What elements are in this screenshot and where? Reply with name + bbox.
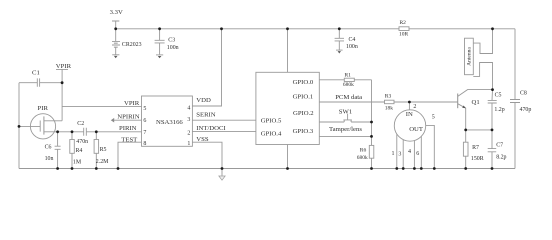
svg-text:IN: IN bbox=[406, 111, 413, 118]
wire pull vertical bbox=[371, 80, 373, 146]
svg-text:C6: C6 bbox=[45, 145, 52, 151]
svg-text:R3: R3 bbox=[385, 94, 392, 100]
wire SERIN bbox=[192, 119, 256, 121]
svg-text:R6: R6 bbox=[360, 148, 367, 154]
junction at (465.7,129.9) bbox=[464, 129, 467, 132]
svg-text:8: 8 bbox=[143, 141, 146, 147]
wire VSS to ground bbox=[192, 142, 222, 168]
junction at (96.3,168.5) bbox=[95, 167, 98, 170]
capacitor C5 bbox=[488, 90, 505, 130]
junction at (396.8,168.5) bbox=[395, 167, 398, 170]
svg-text:4: 4 bbox=[187, 106, 190, 112]
svg-text:R2: R2 bbox=[400, 20, 407, 26]
svg-text:GPIO.5: GPIO.5 bbox=[261, 118, 282, 125]
svg-text:18k: 18k bbox=[385, 105, 394, 111]
junction at (371.5,168.5) bbox=[370, 167, 373, 170]
junction at (222,168.5) bbox=[221, 167, 224, 170]
resistor R1 bbox=[319, 73, 371, 89]
junction at (57.6,131.8) bbox=[56, 130, 59, 133]
svg-text:PIRIN: PIRIN bbox=[119, 125, 137, 132]
svg-text:3: 3 bbox=[398, 151, 401, 157]
svg-text:C3: C3 bbox=[168, 38, 175, 44]
junction at (62.1,82.7) bbox=[61, 81, 64, 84]
svg-text:5: 5 bbox=[143, 106, 146, 112]
svg-text:PCM data: PCM data bbox=[335, 94, 362, 101]
wire TEST to ground bbox=[118, 142, 142, 168]
svg-text:C7: C7 bbox=[496, 143, 503, 149]
junction at (492,168.5) bbox=[491, 167, 494, 170]
module U3 PCM sounder (IN/OUT) bbox=[392, 102, 435, 169]
svg-text:GPIO.1: GPIO.1 bbox=[293, 94, 314, 101]
capacitor C2 bbox=[76, 121, 88, 145]
svg-text:10n: 10n bbox=[45, 156, 54, 162]
svg-text:SW1: SW1 bbox=[339, 108, 352, 115]
wire tamper bbox=[319, 135, 371, 137]
svg-text:C4: C4 bbox=[349, 37, 356, 43]
IC U2 MCU GPIO block bbox=[256, 72, 319, 144]
wire VDD to rail bbox=[192, 29, 221, 106]
svg-text:R4: R4 bbox=[76, 148, 83, 154]
svg-text:2: 2 bbox=[413, 104, 416, 110]
svg-text:TEST: TEST bbox=[121, 136, 137, 143]
svg-text:R7: R7 bbox=[472, 145, 479, 151]
svg-text:OUT: OUT bbox=[409, 126, 423, 133]
resistor R6 bbox=[357, 145, 374, 168]
svg-text:680k: 680k bbox=[357, 155, 368, 161]
junction at (72,131.8) bbox=[71, 130, 74, 133]
battery CR2023 bbox=[112, 29, 142, 55]
svg-text:GPIO.3: GPIO.3 bbox=[293, 128, 314, 135]
junction at (492.5,89.6) bbox=[491, 88, 494, 91]
ground (battery) bbox=[112, 54, 119, 56]
junction at (339.3,28.8) bbox=[338, 27, 341, 30]
svg-text:1: 1 bbox=[392, 151, 395, 157]
wire INT/DOCI bbox=[192, 131, 256, 133]
wire rail corner to C8 bbox=[514, 29, 516, 100]
svg-text:2.2M: 2.2M bbox=[96, 159, 109, 165]
svg-text:6: 6 bbox=[416, 151, 419, 157]
svg-text:NPIRIN: NPIRIN bbox=[117, 114, 139, 121]
wire PIR source / PIRIN bbox=[44, 131, 142, 133]
svg-text:C5: C5 bbox=[495, 92, 502, 98]
svg-text:Q1: Q1 bbox=[472, 99, 480, 106]
svg-text:1M: 1M bbox=[73, 160, 82, 166]
svg-text:C8: C8 bbox=[520, 91, 527, 97]
svg-text:8.2p: 8.2p bbox=[496, 154, 506, 160]
svg-text:SERIN: SERIN bbox=[196, 111, 215, 118]
wire emitter node bbox=[466, 129, 492, 131]
junction at (287.5,168.5) bbox=[286, 167, 289, 170]
ground (C4) bbox=[336, 49, 343, 51]
junction at (465.7,168.5) bbox=[464, 167, 467, 170]
svg-text:2: 2 bbox=[187, 130, 190, 136]
wire R3 to Q1 base bbox=[394, 101, 458, 103]
svg-text:7: 7 bbox=[143, 130, 146, 136]
transistor Q1 bbox=[458, 90, 493, 130]
resistor R5 bbox=[94, 132, 109, 169]
junction at (492.5,28.8) bbox=[491, 27, 494, 30]
resistor R2 bbox=[399, 20, 409, 37]
capacitor C8 bbox=[510, 91, 531, 169]
capacitor C4 bbox=[335, 29, 358, 50]
svg-text:1: 1 bbox=[187, 141, 190, 147]
resistor R4 bbox=[70, 132, 83, 169]
svg-text:PIR: PIR bbox=[38, 105, 49, 112]
svg-text:3: 3 bbox=[187, 117, 190, 123]
capacitor C7 bbox=[488, 130, 507, 169]
antenna A1 bbox=[465, 38, 474, 74]
svg-text:Tamper/lens: Tamper/lens bbox=[329, 126, 362, 133]
svg-text:150R: 150R bbox=[471, 156, 484, 162]
svg-text:GPIO.0: GPIO.0 bbox=[293, 79, 314, 86]
wire antenna feed upper bbox=[473, 29, 492, 54]
svg-text:680k: 680k bbox=[343, 82, 354, 88]
junction at (57.6,168.5) bbox=[56, 167, 59, 170]
svg-text:10R: 10R bbox=[399, 31, 409, 37]
svg-text:R5: R5 bbox=[100, 147, 107, 153]
junction at (118,168.5) bbox=[117, 167, 120, 170]
svg-text:GPIO.4: GPIO.4 bbox=[261, 131, 282, 138]
svg-text:5: 5 bbox=[432, 114, 435, 120]
capacitor C3 bbox=[155, 29, 179, 55]
junction at (159.6,28.8) bbox=[158, 27, 161, 30]
wire 3.3V rail bbox=[116, 28, 515, 30]
node NPIRIN flag bbox=[111, 118, 142, 123]
junction at (115.7,28.8) bbox=[114, 27, 117, 30]
junction at (403.2,168.5) bbox=[402, 167, 405, 170]
svg-text:100n: 100n bbox=[346, 44, 358, 50]
junction at (434.3,168.5) bbox=[433, 167, 436, 170]
svg-text:VPIR: VPIR bbox=[56, 63, 72, 70]
junction at (492,129.9) bbox=[491, 129, 494, 132]
svg-text:C2: C2 bbox=[77, 121, 84, 127]
svg-text:GPIO.2: GPIO.2 bbox=[293, 110, 314, 117]
junction at (221.5,28.8) bbox=[220, 27, 223, 30]
junction at (421.3,168.5) bbox=[420, 167, 423, 170]
junction at (409.4,102) bbox=[408, 101, 411, 104]
wire GPIO block to ground bbox=[287, 145, 289, 169]
ground (VSS) bbox=[219, 169, 225, 181]
junction at (414.4,168.5) bbox=[413, 167, 416, 170]
svg-text:C1: C1 bbox=[32, 70, 40, 77]
svg-text:R1: R1 bbox=[345, 73, 352, 79]
svg-text:INT/DOCI: INT/DOCI bbox=[196, 125, 225, 132]
resistor R7 bbox=[463, 130, 483, 169]
wire left vertical bbox=[18, 83, 20, 169]
wire PCM data bbox=[319, 101, 384, 103]
svg-text:470p: 470p bbox=[520, 107, 532, 113]
resistor R3 bbox=[385, 94, 395, 112]
node 3.3V flag bbox=[110, 9, 123, 29]
svg-text:6: 6 bbox=[143, 118, 146, 124]
transistor PIR bbox=[19, 105, 62, 139]
svg-text:1.2p: 1.2p bbox=[494, 107, 504, 113]
capacitor C1 bbox=[19, 70, 62, 87]
IC U1 NSA3166 PIR controller bbox=[117, 96, 225, 147]
svg-text:100n: 100n bbox=[167, 45, 179, 51]
ground (C3) bbox=[156, 54, 163, 56]
junction at (72,168.5) bbox=[71, 167, 74, 170]
wire ground rail bbox=[19, 168, 515, 170]
junction at (287.5,28.8) bbox=[286, 27, 289, 30]
wire rail to MCU top bbox=[287, 29, 289, 73]
junction at (371.5,122) bbox=[370, 121, 373, 124]
svg-text:NSA3166: NSA3166 bbox=[156, 119, 183, 126]
junction at (96.3,131.8) bbox=[95, 130, 98, 133]
svg-text:VPIR: VPIR bbox=[124, 100, 140, 107]
svg-text:VDD: VDD bbox=[196, 97, 211, 104]
wire antenna feed lower bbox=[473, 63, 492, 90]
svg-text:Antenna: Antenna bbox=[467, 47, 473, 66]
wire VPIR vertical and to pin5 bbox=[62, 83, 141, 121]
junction at (19,126.4) bbox=[18, 125, 21, 128]
svg-text:CR2023: CR2023 bbox=[122, 42, 142, 48]
node VPIR flag bbox=[56, 63, 72, 83]
svg-text:4: 4 bbox=[408, 149, 411, 155]
junction at (371.5,136.4) bbox=[370, 135, 373, 138]
switch SW1 bbox=[319, 108, 371, 122]
svg-text:470n: 470n bbox=[76, 139, 88, 145]
svg-text:3.3V: 3.3V bbox=[110, 9, 123, 16]
capacitor C6 bbox=[45, 132, 61, 169]
